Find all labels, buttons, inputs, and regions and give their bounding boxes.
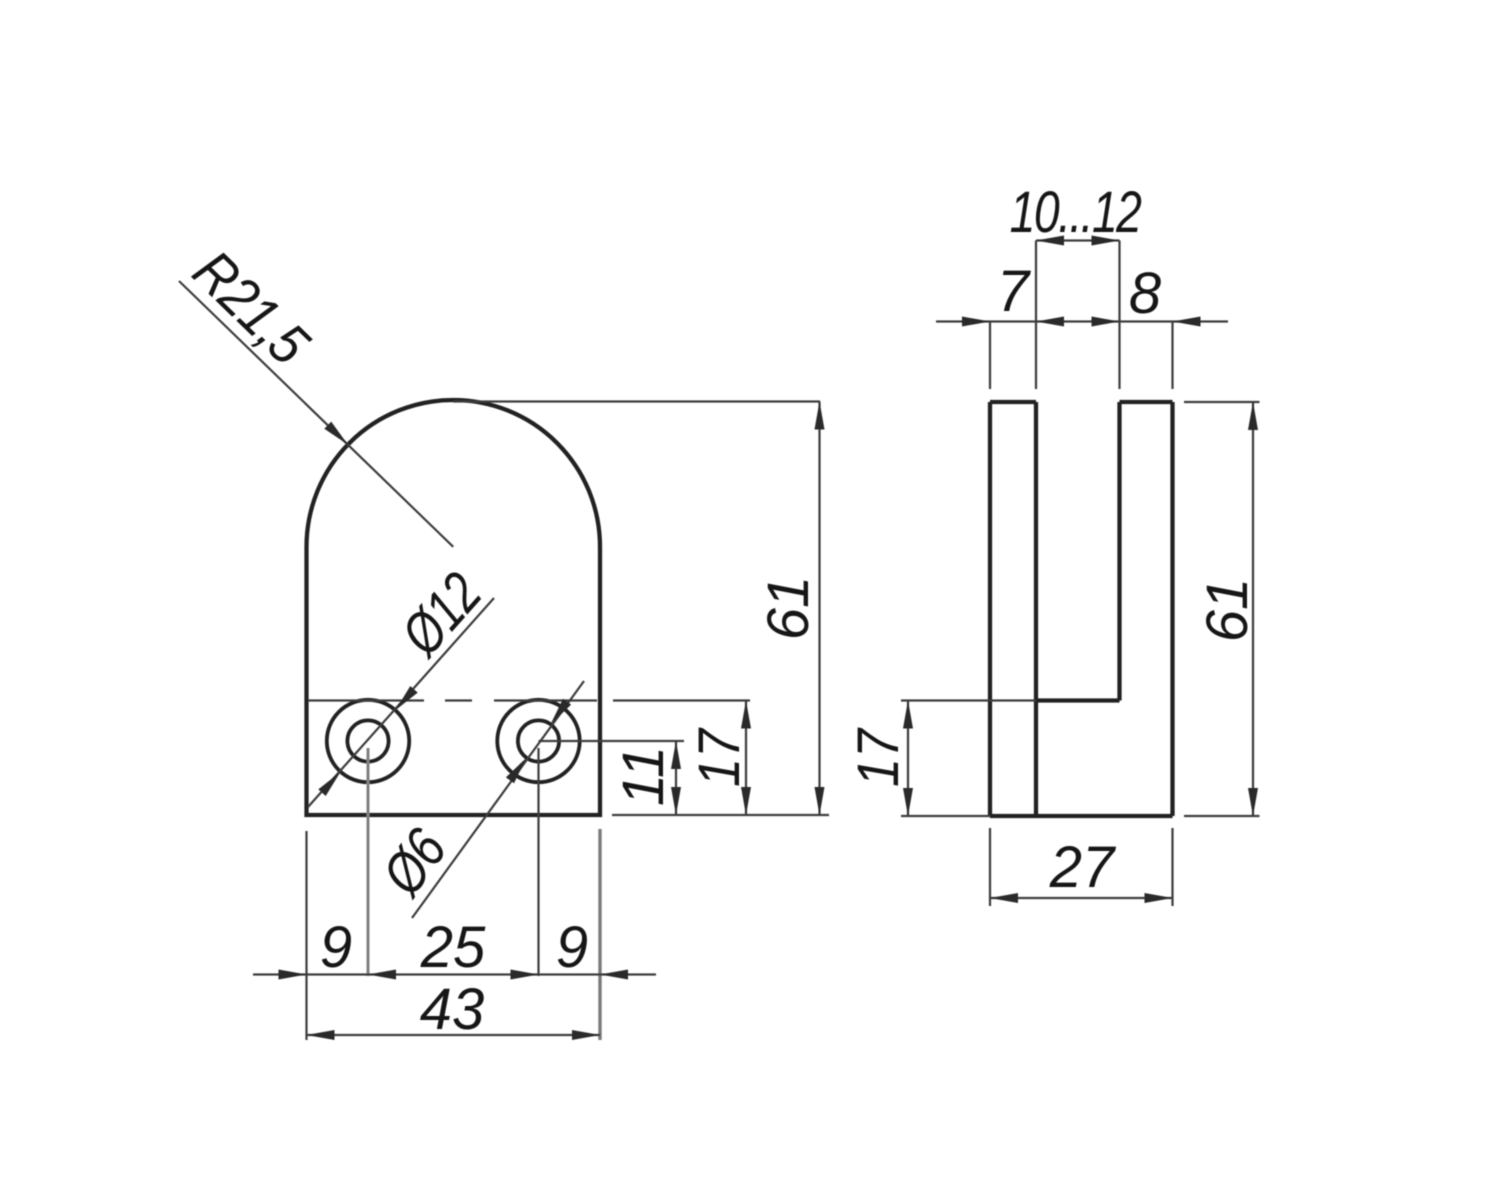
7-8 dimension line	[936, 320, 1228, 322]
right 61 top arrowhead	[1248, 402, 1258, 430]
svg-text:17: 17	[845, 727, 910, 787]
side view left wall inner edge	[1034, 402, 1038, 816]
right hole outer circle Ø12	[497, 700, 579, 782]
10...12 extension line right	[1118, 241, 1120, 390]
43 dimension line	[307, 1034, 601, 1036]
svg-text:10...12: 10...12	[1010, 180, 1142, 245]
svg-text:8: 8	[1129, 261, 1161, 326]
right hole centerline extension	[537, 748, 539, 976]
17 top arrowhead	[741, 701, 751, 729]
svg-text:61: 61	[756, 576, 821, 641]
27 left arrowhead	[990, 893, 1018, 903]
side view right wall top edge	[1120, 400, 1173, 404]
arrow at right edge (9)	[600, 970, 628, 980]
side view left wall outer edge	[988, 402, 992, 816]
arrow 25 right	[511, 970, 539, 980]
8 left arrowhead	[1092, 317, 1120, 327]
27 dimension line	[990, 897, 1173, 899]
Ø12 arrowhead lower	[318, 772, 340, 796]
right 61 top extension line	[1184, 401, 1260, 403]
right 17 dimension line	[907, 701, 909, 817]
right hole inner circle Ø6	[518, 720, 559, 761]
side view left wall top edge	[990, 400, 1036, 404]
svg-text:61: 61	[1195, 578, 1260, 643]
7-8 extension line far right	[1171, 322, 1173, 390]
10...12 left arrowhead	[1036, 236, 1064, 246]
svg-text:43: 43	[420, 977, 485, 1042]
svg-text:27: 27	[1049, 835, 1117, 900]
61 bottom extension line	[612, 814, 829, 816]
arrow 25 left	[368, 970, 396, 980]
27 right arrowhead	[1145, 893, 1173, 903]
17 bottom arrowhead	[741, 787, 751, 815]
right 61 bottom extension line	[1184, 815, 1260, 817]
svg-text:9: 9	[320, 915, 352, 980]
arrow at left edge (9)	[279, 970, 307, 980]
27 extension line left	[989, 828, 991, 906]
11 bottom arrowhead	[671, 787, 681, 815]
right 17 top extension line	[901, 699, 1036, 701]
61 top arrowhead	[815, 402, 825, 430]
left hole centerline extension	[367, 748, 370, 976]
dashed slot-depth centre line	[308, 699, 597, 701]
17 dimension line	[745, 701, 747, 816]
Ø12 arrowhead upper	[395, 686, 417, 710]
side view slot right edge	[1117, 402, 1121, 701]
7 left arrowhead	[962, 317, 990, 327]
svg-text:9: 9	[556, 915, 588, 980]
10...12 dimension line	[1036, 239, 1120, 241]
radius leader arrowhead	[324, 422, 348, 445]
svg-text:11: 11	[611, 746, 676, 806]
Ø6 arrowhead upper	[551, 699, 572, 725]
61 top extension line	[453, 400, 820, 402]
8 right arrowhead	[1173, 317, 1201, 327]
svg-text:7: 7	[997, 259, 1032, 324]
11 extension line from hole center	[539, 740, 685, 742]
right extension line	[598, 829, 601, 1040]
left hole inner circle Ø6	[347, 720, 388, 761]
43 left arrowhead	[307, 1030, 335, 1040]
side view bottom edge	[990, 814, 1173, 818]
left extension line	[305, 831, 307, 1040]
11 top arrowhead	[671, 741, 681, 769]
43 right arrowhead	[572, 1030, 600, 1040]
svg-text:17: 17	[686, 727, 751, 787]
7 right arrowhead	[1036, 317, 1064, 327]
diameter leader line Ø12	[308, 598, 494, 807]
Ø6 arrowhead lower	[506, 758, 527, 784]
front view outline (D-shaped plate)	[307, 400, 601, 815]
right 61 bottom arrowhead	[1248, 788, 1258, 816]
left hole outer circle Ø12	[327, 700, 409, 782]
10...12 extension line left	[1035, 241, 1037, 390]
11 dimension line	[675, 741, 677, 815]
side view slot floor	[1036, 698, 1120, 702]
7-8 extension line far left	[989, 322, 991, 390]
right 61 dimension line	[1252, 402, 1254, 816]
right 17 bottom arrowhead	[903, 788, 913, 816]
61 dimension line	[818, 402, 820, 816]
17 extension line (slot depth)	[613, 699, 750, 701]
right 17 top arrowhead	[903, 701, 913, 729]
side view right wall outer edge	[1170, 402, 1174, 816]
61 bottom arrowhead	[815, 787, 825, 815]
svg-text:25: 25	[420, 915, 486, 980]
right 17 bottom extension line	[901, 815, 990, 817]
27 extension line right	[1171, 828, 1173, 906]
9-25-9 dimension line	[253, 973, 656, 975]
radius leader line R21,5	[179, 281, 453, 547]
10...12 right arrowhead	[1092, 236, 1120, 246]
diameter leader line Ø6	[412, 681, 584, 918]
